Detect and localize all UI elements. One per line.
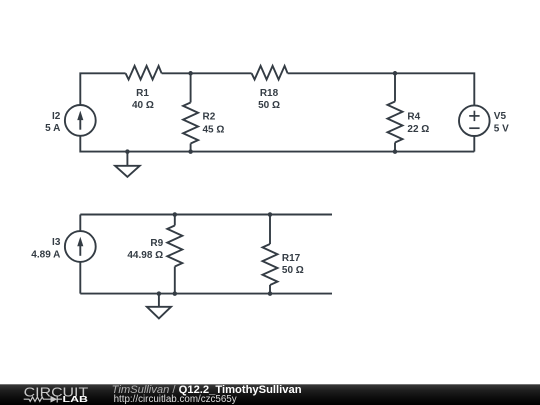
wire: top rail right segment to V5	[288, 73, 475, 105]
resistor R9	[167, 215, 182, 294]
node: R17 top junction	[268, 212, 273, 217]
svg-text:LAB: LAB	[63, 394, 89, 404]
node: R9 bottom junction	[173, 291, 178, 296]
svg-text:R17: R17	[282, 253, 301, 264]
wire: V5 bottom stub	[473, 136, 475, 152]
node: R17 bottom junction	[268, 291, 273, 296]
wire: I3 bottom stub	[79, 262, 81, 294]
wire: bottom circuit top rail	[80, 214, 332, 216]
resistor R18	[252, 66, 288, 80]
svg-text:5 V: 5 V	[494, 124, 509, 135]
svg-text:I2: I2	[52, 111, 61, 122]
svg-text:R2: R2	[203, 112, 216, 123]
node: R2 top junction	[188, 71, 193, 76]
svg-text:R9: R9	[150, 238, 163, 249]
node: R4 bottom junction	[393, 149, 398, 154]
svg-text:5 A: 5 A	[45, 123, 60, 134]
wire: bottom circuit bottom rail	[80, 293, 332, 295]
svg-text:22 Ω: 22 Ω	[407, 124, 429, 135]
node: R9 top junction	[173, 212, 178, 217]
wire: bottom rail of top circuit	[80, 136, 474, 152]
resistor R17	[263, 215, 278, 294]
node: ground junction top circuit	[125, 149, 129, 154]
node: ground junction bottom circuit	[157, 291, 162, 296]
svg-text:http://circuitlab.com/czc565y: http://circuitlab.com/czc565y	[114, 394, 237, 405]
wire: top rail middle segment	[162, 72, 252, 74]
wire: I3 top stub	[79, 215, 81, 232]
ground (top circuit)	[115, 152, 140, 177]
svg-text:50 Ω: 50 Ω	[258, 100, 280, 111]
svg-text:4.89 A: 4.89 A	[31, 250, 60, 261]
wire: top rail left segment	[80, 73, 125, 105]
svg-text:50 Ω: 50 Ω	[282, 265, 304, 276]
resistor R2	[183, 73, 198, 151]
CircuitLab logo resistor squiggle	[24, 397, 51, 401]
svg-text:44.98 Ω: 44.98 Ω	[127, 250, 163, 261]
resistor R1	[126, 66, 162, 80]
svg-text:R4: R4	[407, 112, 420, 123]
resistor R4	[388, 73, 403, 151]
svg-text:R1: R1	[136, 88, 149, 99]
node: R4 top junction	[393, 71, 398, 76]
current source I2	[65, 105, 96, 136]
svg-text:R18: R18	[260, 88, 279, 99]
node: R2 bottom junction	[188, 149, 193, 154]
CircuitLab logo diode	[51, 396, 63, 403]
footer bar	[0, 384, 540, 405]
voltage source V5	[459, 105, 490, 136]
current source I3	[65, 231, 96, 262]
svg-text:45 Ω: 45 Ω	[203, 124, 225, 135]
ground (bottom circuit)	[147, 294, 171, 319]
svg-text:V5: V5	[494, 111, 507, 122]
svg-text:40 Ω: 40 Ω	[132, 100, 154, 111]
svg-text:I3: I3	[52, 237, 61, 248]
